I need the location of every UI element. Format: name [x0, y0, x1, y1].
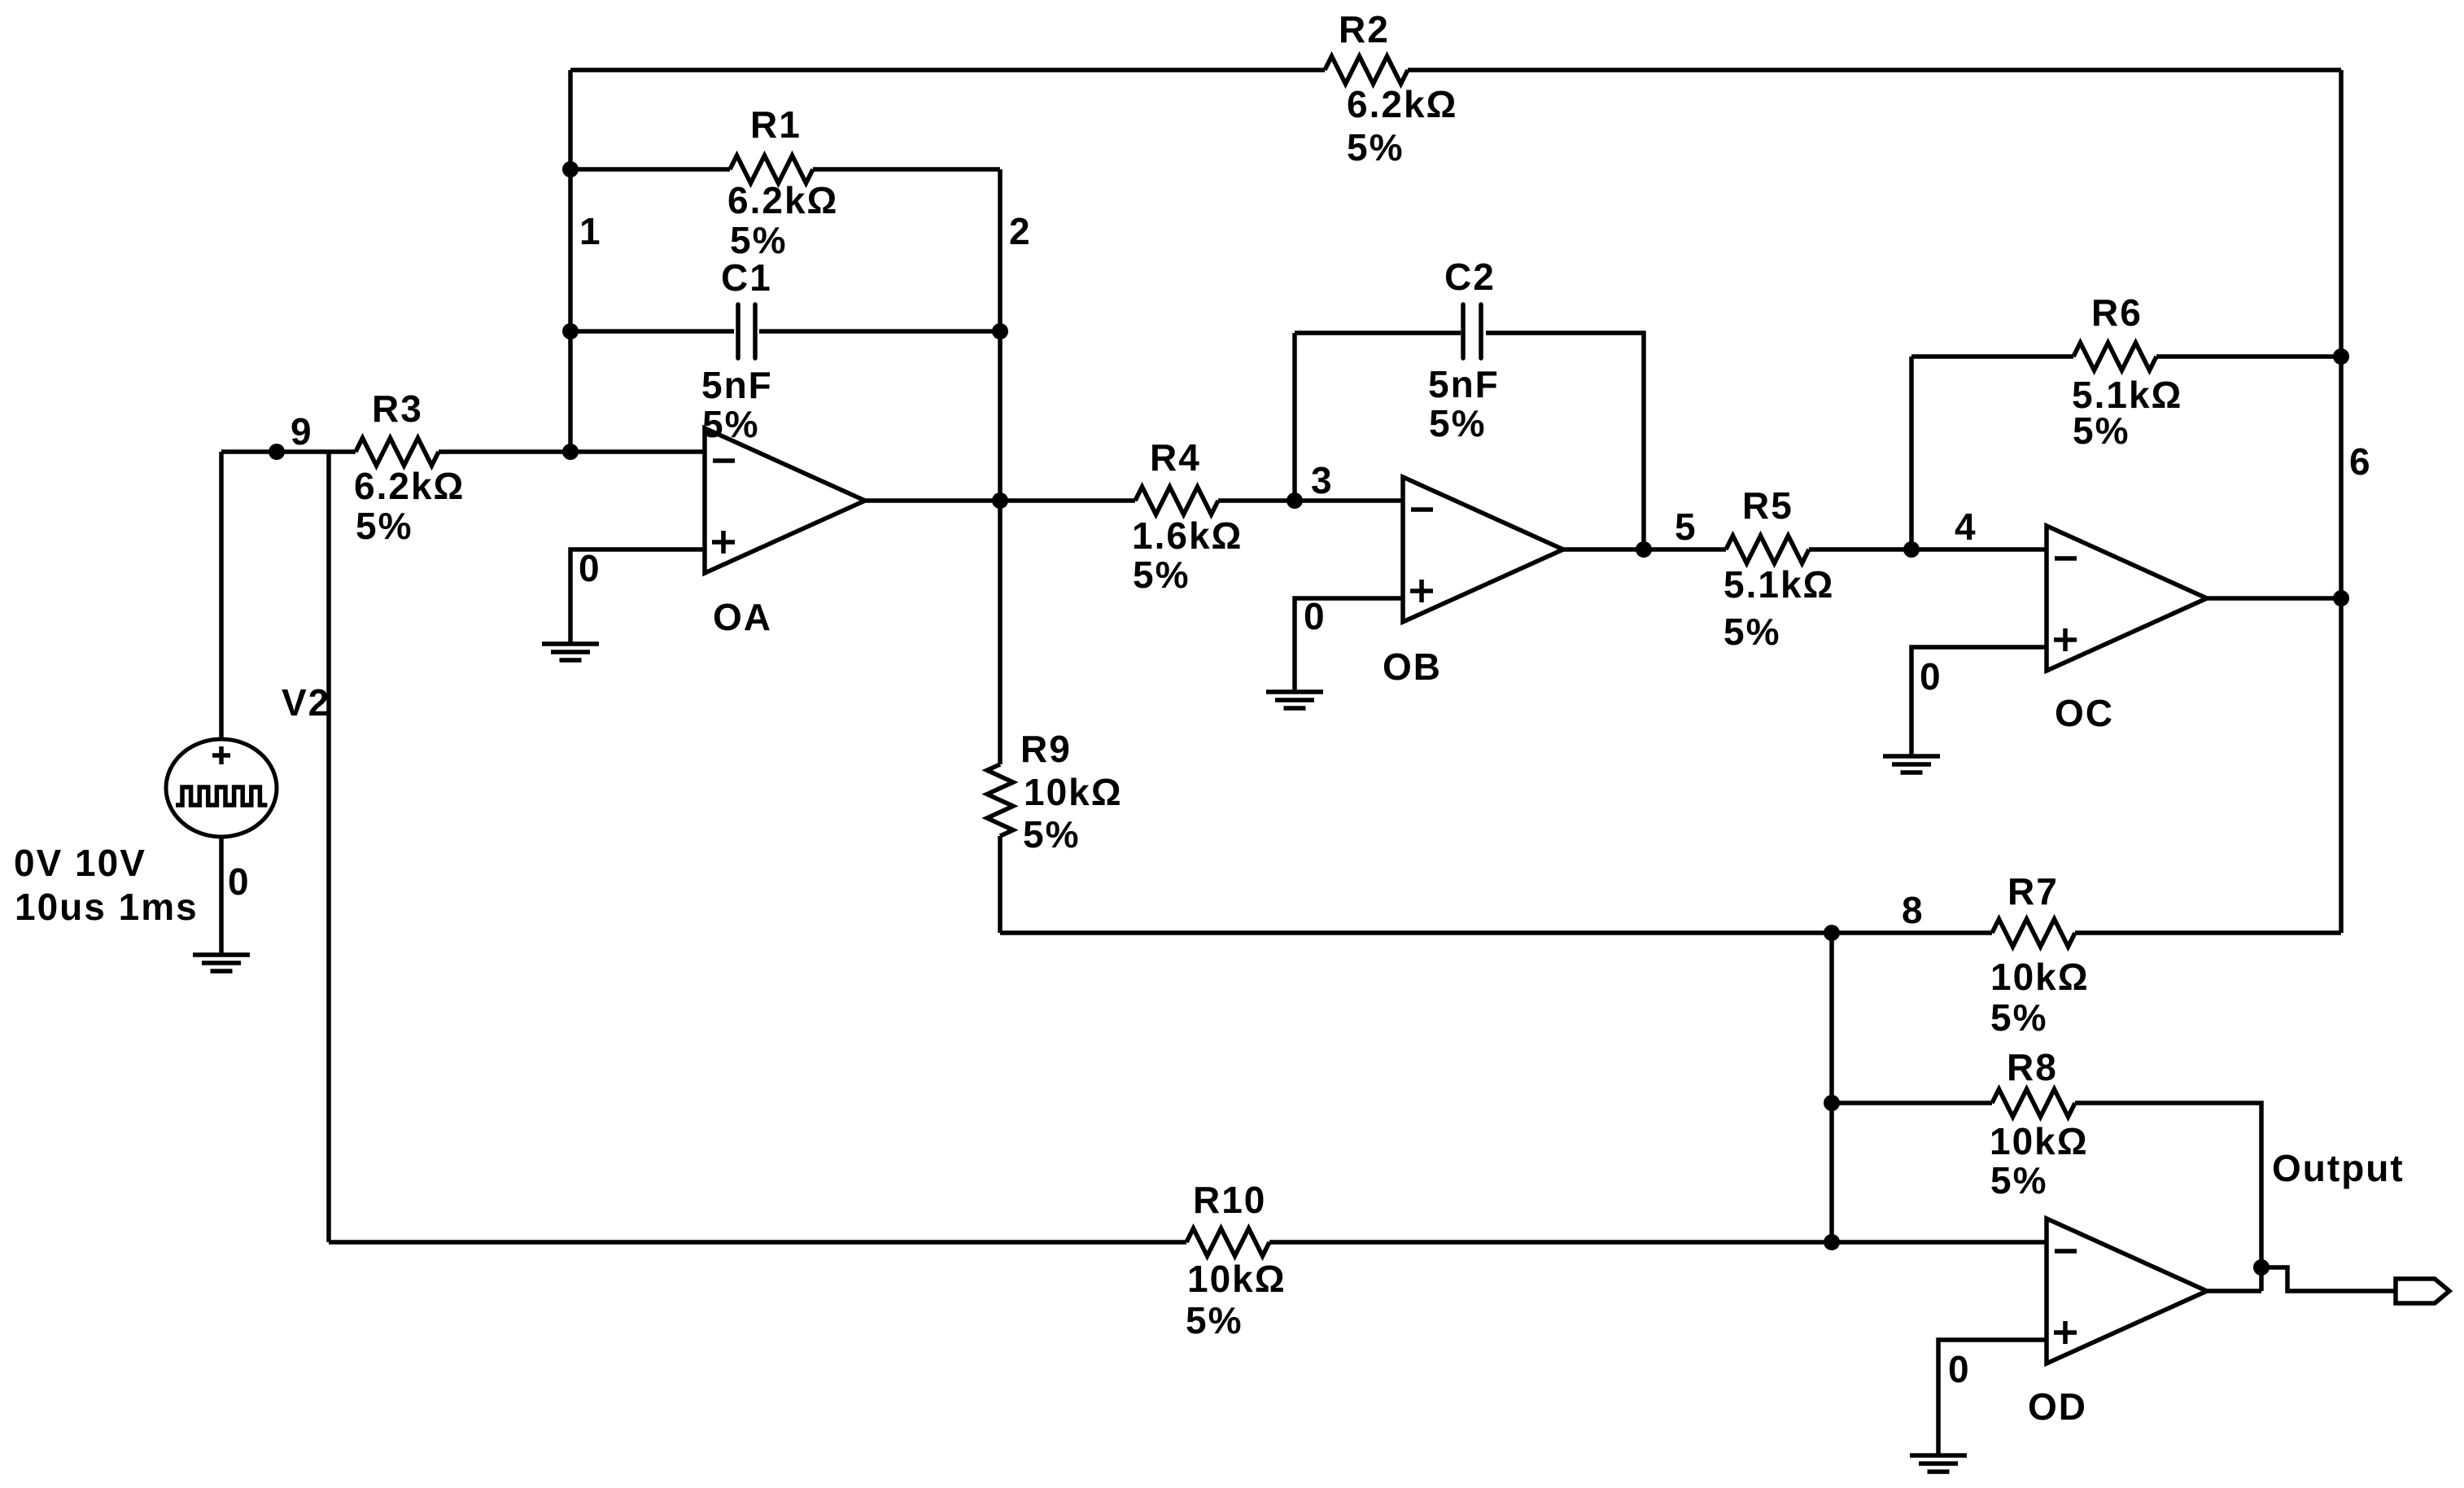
- svg-text:5%: 5%: [2073, 409, 2130, 452]
- svg-text:6.2kΩ: 6.2kΩ: [727, 179, 838, 221]
- wire: OB output to R5: [1563, 547, 1726, 552]
- resistor R7: [1992, 919, 2075, 947]
- wire: R9 bottom lead: [998, 836, 1003, 933]
- svg-text:5: 5: [1675, 505, 1697, 548]
- resistor R10: [1186, 1228, 1269, 1256]
- voltage source V2: [166, 739, 277, 837]
- svg-text:9: 9: [291, 410, 313, 453]
- voltage source V2 lead top: [219, 452, 224, 739]
- node 6 dot: [2333, 348, 2349, 365]
- svg-text:8: 8: [1902, 889, 1924, 931]
- wire: OA output to R4: [865, 498, 1135, 503]
- svg-text:1: 1: [579, 210, 602, 252]
- resistor R5: [1726, 536, 1809, 563]
- resistor R4: [1135, 487, 1218, 514]
- wire: R8 right lead and drop: [2075, 1103, 2261, 1291]
- wire: R2 top feedback wire: [570, 68, 1325, 72]
- wire: R9 top lead (x=1229): [998, 501, 1003, 764]
- wire: R6 right lead: [2156, 354, 2341, 359]
- svg-text:3: 3: [1311, 459, 1334, 501]
- svg-text:5%: 5%: [1347, 126, 1404, 168]
- svg-text:5%: 5%: [1990, 996, 2047, 1039]
- svg-text:0: 0: [579, 547, 601, 589]
- node 3 dot: [1287, 492, 1303, 509]
- wire: R2 to right rail: [1408, 68, 2341, 72]
- ground (OC): [1883, 754, 1940, 759]
- svg-text:OA: OA: [713, 596, 772, 638]
- svg-text:10us 1ms: 10us 1ms: [15, 886, 199, 928]
- resistor R9 (vertical): [987, 764, 1013, 836]
- svg-text:6: 6: [2349, 440, 2372, 483]
- svg-text:10kΩ: 10kΩ: [1990, 956, 2090, 998]
- capacitor C1: [736, 304, 741, 358]
- op-amp OA: [705, 428, 865, 573]
- ground (V2): [193, 952, 250, 957]
- svg-text:5%: 5%: [356, 505, 413, 547]
- node 8 dot: [1824, 925, 1840, 941]
- svg-text:R8: R8: [2007, 1046, 2058, 1088]
- resistor R3: [356, 438, 439, 466]
- wire: branch to R10 (x=404): [326, 452, 331, 1242]
- svg-text:1.6kΩ: 1.6kΩ: [1132, 514, 1243, 557]
- wire: C2 right lead: [1486, 333, 1644, 549]
- wire: node 8 line from R9 bottom: [1000, 930, 1992, 935]
- voltage source V2 lead bottom: [219, 837, 224, 955]
- svg-text:5%: 5%: [1133, 554, 1190, 596]
- svg-text:5nF: 5nF: [1428, 363, 1500, 405]
- ground (OB): [1266, 689, 1323, 694]
- wire: OA non-inverting input: [570, 549, 705, 644]
- svg-text:R1: R1: [750, 103, 802, 146]
- node dot (701,208): [562, 161, 579, 177]
- resistor R2: [1325, 56, 1408, 84]
- svg-text:2: 2: [1009, 210, 1032, 252]
- svg-text:R3: R3: [372, 387, 423, 430]
- wire: OB non-inverting input: [1295, 598, 1403, 692]
- svg-text:R6: R6: [2091, 291, 2143, 334]
- op-amp OC: [2047, 526, 2207, 671]
- wire: R10 left lead: [329, 1240, 1186, 1245]
- op-amp OD: [2047, 1219, 2207, 1363]
- svg-text:R2: R2: [1339, 8, 1390, 50]
- node 5 dot: [1636, 541, 1652, 558]
- svg-text:0: 0: [1304, 595, 1326, 637]
- wire: node 8 down to R8/R10 (x=2251): [1829, 933, 1834, 1242]
- wire: input line from V2 to R3: [221, 449, 356, 454]
- node dot OC output (2877,735): [2333, 590, 2349, 606]
- svg-text:4: 4: [1955, 505, 1977, 548]
- resistor R1: [730, 155, 813, 183]
- svg-text:V2: V2: [282, 681, 330, 724]
- resistor R8: [1992, 1089, 2075, 1117]
- svg-text:0: 0: [1948, 1348, 1971, 1390]
- svg-text:5%: 5%: [1186, 1299, 1243, 1341]
- wire: OD non-inverting input: [1938, 1340, 2047, 1455]
- op-amp OB: [1403, 477, 1563, 622]
- svg-text:5nF: 5nF: [701, 364, 773, 406]
- resistor R6: [2073, 343, 2156, 370]
- svg-text:0V 10V: 0V 10V: [14, 842, 146, 884]
- wire: C1 right lead: [759, 329, 1000, 334]
- svg-text:R7: R7: [2007, 870, 2059, 912]
- wire: node 1 vertical (x=701): [568, 70, 573, 452]
- svg-text:C2: C2: [1444, 256, 1496, 298]
- node dot (2251,1526): [1824, 1234, 1840, 1250]
- wire: R8 left lead: [1832, 1101, 1992, 1105]
- node dot (2779,1557): [2253, 1259, 2270, 1276]
- wire: C1 left lead: [570, 329, 734, 334]
- svg-text:OC: OC: [2055, 692, 2114, 734]
- wire: R4 to OB inverting input: [1218, 498, 1403, 503]
- output connector flag: [2396, 1279, 2449, 1303]
- svg-text:R10: R10: [1193, 1179, 1266, 1221]
- wire: C2 left lead: [1295, 330, 1461, 335]
- ground (OD): [1910, 1453, 1967, 1458]
- ground (OA): [542, 641, 599, 646]
- wire: OC output to right rail: [2207, 596, 2341, 601]
- node dot (701,407): [562, 323, 579, 339]
- svg-text:5.1kΩ: 5.1kΩ: [1723, 563, 1834, 606]
- svg-text:OB: OB: [1383, 646, 1442, 688]
- wire: node 4 up to R6: [1909, 357, 1914, 549]
- svg-text:R5: R5: [1742, 484, 1793, 527]
- node dot (701,555): [562, 444, 579, 460]
- wire: right rail vertical (x=2877): [2339, 70, 2344, 933]
- wire: OD output: [2207, 1289, 2261, 1293]
- svg-text:6.2kΩ: 6.2kΩ: [354, 465, 465, 507]
- svg-text:R4: R4: [1150, 436, 1201, 479]
- wire: R6 left lead: [1911, 354, 2073, 359]
- svg-text:6.2kΩ: 6.2kΩ: [1347, 83, 1457, 125]
- wire: R5 to OC inverting input: [1809, 547, 2047, 552]
- svg-text:10kΩ: 10kΩ: [1024, 771, 1123, 813]
- capacitor C2: [1461, 304, 1466, 358]
- wire: node 3 up to C2: [1292, 333, 1297, 501]
- node dot (1229,407): [992, 323, 1008, 339]
- svg-text:R9: R9: [1020, 728, 1072, 770]
- svg-text:5%: 5%: [1990, 1159, 2047, 1201]
- wire: output jog: [2261, 1267, 2396, 1291]
- svg-text:Output: Output: [2272, 1147, 2405, 1189]
- wire: R10 to OD inverting input: [1269, 1240, 2047, 1245]
- svg-text:5%: 5%: [730, 219, 787, 261]
- wire: OC non-inverting input: [1911, 647, 2047, 756]
- wire: R1 right lead to node 2: [813, 167, 1000, 172]
- wire: R3 to OA inverting input: [439, 449, 705, 454]
- wire: R1 left lead: [570, 167, 730, 172]
- node 9 dot: [269, 444, 285, 460]
- svg-text:10kΩ: 10kΩ: [1990, 1120, 2089, 1162]
- svg-text:5%: 5%: [1723, 611, 1780, 653]
- wire: R7 to right rail: [2075, 930, 2341, 935]
- svg-text:0: 0: [228, 860, 251, 903]
- svg-text:OD: OD: [2028, 1385, 2087, 1428]
- node dot (1229,615) OA output: [992, 492, 1008, 509]
- wire: node 2 vertical (x=1229): [998, 169, 1003, 501]
- svg-text:5%: 5%: [1429, 402, 1486, 444]
- node 4 dot: [1903, 541, 1920, 558]
- svg-text:C1: C1: [721, 256, 772, 299]
- svg-text:5%: 5%: [1023, 813, 1080, 856]
- svg-text:0: 0: [1920, 655, 1942, 698]
- node dot (2251,1355) R8: [1824, 1095, 1840, 1111]
- svg-text:10kΩ: 10kΩ: [1187, 1258, 1287, 1300]
